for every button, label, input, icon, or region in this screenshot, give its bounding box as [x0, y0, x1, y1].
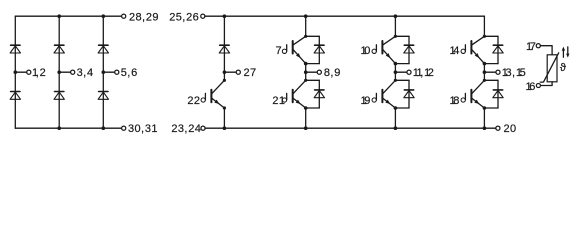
wire leg V upper diode branch top: [395, 35, 409, 37]
svg-text:3,4: 3,4: [77, 67, 94, 79]
junction node branch 3 bottom: [102, 126, 106, 130]
diode D3 (upper, phase 3,4): [54, 45, 64, 53]
terminal 5,6: [115, 70, 119, 74]
diode D2 (lower, phase 1,2): [10, 92, 20, 100]
junction node leg W bottom rail: [483, 126, 487, 130]
diode leg W upper freewheel: [493, 45, 503, 53]
wire leg U collector drop: [305, 16, 307, 36]
junction node leg W lower collector: [483, 79, 486, 82]
diode leg U upper freewheel: [314, 45, 324, 53]
terminal 13,15: [496, 70, 500, 74]
label 13,15: [502, 67, 526, 79]
wire AC stub 1,2: [15, 71, 27, 73]
label 1,2: [32, 67, 46, 79]
wire chopper output stub: [224, 71, 236, 73]
svg-text:22: 22: [187, 95, 200, 107]
junction node leg V output: [394, 70, 398, 74]
wire leg W upper diode branch top: [484, 35, 498, 37]
label 22 gate pin: [187, 95, 200, 107]
wire leg W lower diode branch bottom: [484, 107, 498, 109]
terminal 1,2: [27, 70, 31, 74]
thermistor R1 body: [547, 55, 557, 82]
svg-text:18: 18: [450, 95, 460, 107]
wire rectifier branch 3 vertical: [102, 16, 104, 128]
wire leg W upper diode branch vertical: [497, 36, 499, 63]
wire leg W upper diode branch bottom: [484, 63, 498, 65]
terminal 16: [536, 83, 540, 87]
wire leg V lower diode branch vertical: [408, 80, 410, 108]
transistor T10 upper IGBT leg V: [372, 36, 395, 63]
wire bottom DC- rail of rectifier bridge: [15, 127, 121, 129]
svg-text:14: 14: [450, 45, 460, 57]
diode leg V upper freewheel: [404, 45, 414, 53]
junction node chopper output: [223, 70, 227, 74]
junction node leg V top rail: [394, 14, 398, 18]
junction node leg U bottom rail: [304, 126, 308, 130]
wire AC stub 5,6: [103, 71, 115, 73]
terminal 11,12: [407, 70, 411, 74]
wire leg W lower diode branch top: [484, 79, 498, 81]
label 17: [526, 41, 536, 53]
svg-text:16: 16: [526, 81, 536, 93]
svg-text:11,12: 11,12: [413, 67, 434, 79]
wire leg W lower diode branch vertical: [497, 80, 499, 108]
wire rectifier branch 1 vertical: [14, 16, 16, 128]
wire leg W collector drop: [483, 16, 485, 36]
label 18 gate pin: [450, 95, 460, 107]
label 3,4: [77, 67, 94, 79]
junction node branch 2 top: [57, 14, 61, 18]
terminal 30,31: [122, 126, 126, 130]
label 5,6: [121, 67, 138, 79]
label 25,26: [169, 11, 199, 23]
diode leg W lower freewheel: [493, 90, 503, 98]
junction node chopper bottom rail: [223, 126, 227, 130]
svg-text:5,6: 5,6: [121, 67, 138, 79]
junction node branch 3 top: [102, 14, 106, 18]
junction node branch 3 AC: [102, 70, 106, 74]
wire leg V upper diode branch bottom: [395, 63, 409, 65]
wire leg V midpoint vertical: [394, 64, 396, 81]
transistor T21 lower IGBT leg U: [282, 80, 305, 108]
diode D4 (lower, phase 3,4): [54, 92, 64, 100]
transistor T14 upper IGBT leg W: [461, 36, 484, 63]
wire AC stub 3,4: [59, 71, 71, 73]
svg-text:8,9: 8,9: [324, 67, 341, 79]
junction node leg V lower emitter: [394, 106, 398, 110]
terminal 27: [236, 70, 240, 74]
terminal 20: [496, 126, 500, 130]
junction node leg W upper emitter: [483, 62, 487, 66]
diode D5 (upper, phase 5,6): [98, 45, 108, 53]
svg-text:1,2: 1,2: [32, 67, 46, 79]
wire leg U midpoint vertical: [305, 64, 307, 81]
transistor T22 chopper IGBT: [201, 80, 224, 108]
transistor T18 lower IGBT leg W: [461, 80, 484, 108]
diode leg U lower freewheel: [314, 90, 324, 98]
wire leg V lower diode branch top: [395, 79, 409, 81]
wire leg U emitter drop: [305, 108, 307, 128]
svg-text:20: 20: [504, 123, 517, 135]
wire leg U lower diode branch top: [306, 79, 320, 81]
junction node leg U lower emitter: [304, 106, 308, 110]
label 16: [526, 81, 536, 93]
wire rectifier branch 2 vertical: [58, 16, 60, 128]
svg-text:7: 7: [276, 45, 282, 57]
wire leg U lower diode branch vertical: [318, 80, 320, 108]
wire chopper branch upper vertical: [223, 16, 225, 80]
label 14 gate pin: [450, 45, 460, 57]
diode leg V lower freewheel: [404, 90, 414, 98]
label 10 gate pin: [361, 45, 371, 57]
svg-text:25,26: 25,26: [169, 11, 199, 23]
junction node leg V upper emitter: [394, 62, 398, 66]
terminal 23,24: [201, 126, 205, 130]
wire chopper branch lower vertical: [223, 108, 225, 128]
terminal 17: [536, 44, 540, 48]
terminal 28,29: [122, 14, 126, 18]
svg-text:21: 21: [272, 95, 285, 107]
wire thermistor top lead: [540, 46, 552, 55]
terminal 8,9: [317, 70, 321, 74]
arrow up (resistance): [562, 47, 565, 58]
wire leg V emitter drop: [394, 108, 396, 128]
svg-text:28,29: 28,29: [129, 11, 159, 23]
transistor T7 upper IGBT leg U: [282, 36, 305, 63]
wire thermistor bottom lead: [541, 82, 553, 86]
wire leg V lower diode branch bottom: [395, 107, 409, 109]
junction node leg W lower emitter: [483, 106, 487, 110]
wire top DC+ rail of rectifier bridge: [15, 15, 121, 17]
label 28,29: [129, 11, 159, 23]
wire leg U upper diode branch bottom: [306, 63, 320, 65]
wire leg W midpoint vertical: [483, 64, 485, 81]
junction node branch 2 AC: [57, 70, 61, 74]
transistor T19 lower IGBT leg V: [372, 80, 395, 108]
wire leg U output stub: [306, 71, 318, 73]
junction node leg U upper emitter: [304, 62, 308, 66]
svg-text:17: 17: [526, 41, 536, 53]
label 27: [243, 67, 256, 79]
junction node leg V lower collector: [394, 79, 397, 82]
terminal 25,26: [201, 14, 205, 18]
junction node leg U output: [304, 70, 308, 74]
wire leg U upper diode branch top: [306, 35, 320, 37]
svg-text:ϑ: ϑ: [560, 62, 566, 74]
junction node leg U lower collector: [304, 79, 307, 82]
label 23,24: [171, 123, 201, 135]
label theta temperature symbol: [560, 62, 566, 74]
thermistor R1 slash: [540, 53, 558, 82]
svg-text:23,24: 23,24: [171, 123, 201, 135]
diode D6 (lower, phase 5,6): [98, 92, 108, 100]
junction node branch 2 bottom: [57, 126, 61, 130]
label 30,31: [128, 123, 158, 135]
diode D7 chopper freewheel: [219, 45, 229, 53]
junction node chopper collector corner: [223, 79, 226, 82]
junction node leg W output: [483, 70, 487, 74]
wire top DC+ rail (25,26 to phase W leg): [205, 15, 485, 17]
svg-text:19: 19: [361, 95, 371, 107]
svg-text:13,15: 13,15: [502, 67, 526, 79]
junction node chopper emitter corner: [223, 106, 226, 109]
label 8,9: [324, 67, 341, 79]
wire leg U upper diode branch vertical: [318, 36, 320, 63]
wire leg V output stub: [395, 71, 407, 73]
arrow down (temperature): [566, 47, 569, 58]
label 7 gate pin: [276, 45, 282, 57]
label 20: [504, 123, 517, 135]
svg-text:10: 10: [361, 45, 371, 57]
svg-text:27: 27: [243, 67, 256, 79]
junction node leg V upper collector: [394, 35, 397, 38]
diode D1 (upper, phase 1,2): [10, 45, 20, 53]
label 21 gate pin: [272, 95, 285, 107]
junction node chopper top rail: [223, 14, 227, 18]
wire leg W emitter drop: [483, 108, 485, 128]
junction node branch 1 AC: [14, 70, 18, 74]
junction node leg U top rail: [304, 14, 308, 18]
junction node leg U upper collector: [304, 35, 307, 38]
wire leg U lower diode branch bottom: [306, 107, 320, 109]
wire leg V collector drop: [394, 16, 396, 36]
wire leg V upper diode branch vertical: [408, 36, 410, 63]
junction node leg V bottom rail: [394, 126, 398, 130]
terminal 3,4: [71, 70, 75, 74]
wire bottom DC- rail (23,24 to terminal 20): [205, 127, 496, 129]
label 19 gate pin: [361, 95, 371, 107]
svg-text:30,31: 30,31: [128, 123, 158, 135]
label 11,12: [413, 67, 434, 79]
junction node leg W upper collector: [483, 35, 486, 38]
wire leg W output stub: [484, 71, 496, 73]
